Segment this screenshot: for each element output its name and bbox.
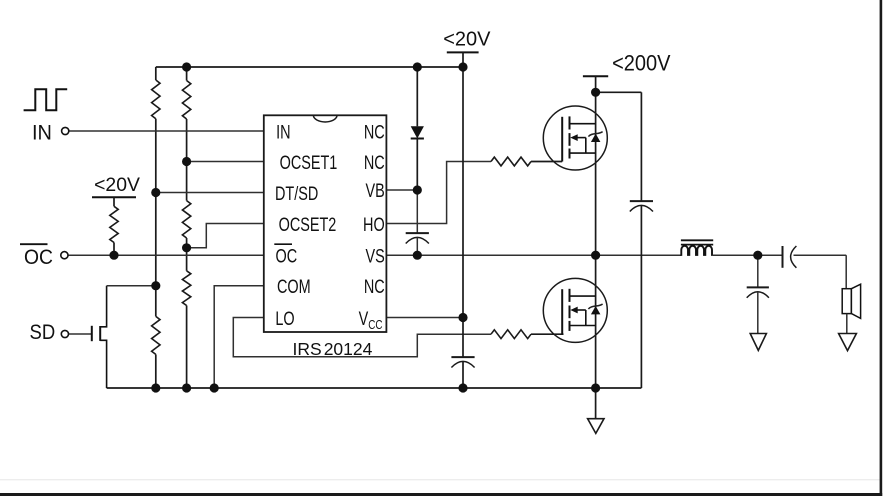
- svg-text:NC: NC: [364, 276, 385, 297]
- svg-text:HO: HO: [363, 214, 385, 235]
- svg-text:SD: SD: [30, 321, 56, 344]
- svg-text:LO: LO: [275, 308, 294, 329]
- svg-text:IN: IN: [276, 121, 290, 142]
- svg-text:<20V: <20V: [443, 28, 491, 50]
- svg-text:OC: OC: [276, 246, 298, 267]
- svg-text:OCSET2: OCSET2: [279, 214, 337, 235]
- svg-text:<20V: <20V: [94, 174, 140, 196]
- svg-text:VS: VS: [365, 246, 384, 267]
- svg-text:OCSET1: OCSET1: [280, 152, 338, 173]
- svg-text:COM: COM: [277, 276, 311, 297]
- svg-text:IRS20124: IRS20124: [293, 339, 373, 359]
- svg-text:OC: OC: [24, 246, 53, 269]
- svg-text:<200V: <200V: [612, 52, 670, 76]
- svg-text:DT/SD: DT/SD: [275, 183, 318, 204]
- svg-text:NC: NC: [364, 152, 385, 173]
- svg-text:IN: IN: [32, 121, 52, 145]
- svg-text:VB: VB: [365, 180, 384, 201]
- svg-text:NC: NC: [364, 121, 385, 142]
